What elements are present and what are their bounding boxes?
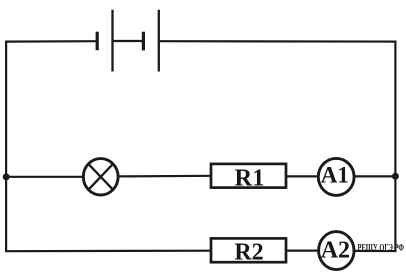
svg-text:R2: R2 (234, 240, 263, 266)
svg-text:A2: A2 (321, 238, 350, 264)
wire right vertical (394, 41, 396, 253)
svg-text:R1: R1 (235, 164, 265, 191)
node left junction (3, 173, 10, 180)
wire left vertical (5, 41, 7, 253)
ammeter A2 (319, 232, 354, 270)
wire R1 to A1 (286, 175, 318, 177)
battery GB1 cell2 long plate (158, 10, 160, 72)
svg-text:A1: A1 (321, 162, 349, 187)
resistor R2 (211, 238, 286, 265)
wire top-left horizontal (6, 40, 97, 43)
wire top-right horizontal (159, 40, 396, 43)
svg-text:РЕШУ ОГЭ РФ: РЕШУ ОГЭ РФ (358, 242, 405, 252)
wire A1 to right vertical (354, 175, 395, 177)
lamp HL1 (83, 159, 118, 195)
battery GB1 cell1 long plate (111, 10, 113, 72)
wire A2 to right vertical (355, 250, 396, 252)
wire R2 to A2 (286, 250, 318, 252)
node right junction (392, 173, 399, 180)
wire bottom branch left (6, 250, 211, 253)
ammeter A1 (318, 158, 354, 195)
battery GB1 cell1 short plate (96, 32, 99, 51)
wire lamp to R1 (118, 175, 211, 178)
resistor R1 (211, 164, 286, 191)
battery GB1 cell2 short plate (142, 32, 145, 51)
wire middle branch left (6, 176, 83, 178)
wire between battery cells (113, 40, 144, 42)
